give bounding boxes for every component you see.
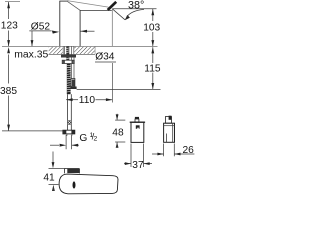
26 dimension xyxy=(163,144,165,157)
svg-text:2: 2 xyxy=(94,135,98,142)
svg-text:Ø34: Ø34 xyxy=(95,51,115,62)
svg-text:41: 41 xyxy=(43,173,55,184)
41 dimension xyxy=(52,152,54,163)
O52 leader: underline, right arrow, drop line with arrow xyxy=(29,30,51,32)
svg-text:123: 123 xyxy=(1,21,18,32)
deck hole edges xyxy=(63,46,74,54)
O52 right-side arrow at body edge xyxy=(81,30,95,32)
spout underside xyxy=(80,9,112,11)
115 dimension xyxy=(152,47,154,63)
counter/deck top line xyxy=(2,45,158,47)
control box xyxy=(131,122,144,142)
svg-text:max.35: max.35 xyxy=(14,50,48,61)
connector on sensor cable xyxy=(71,79,75,87)
washer xyxy=(61,55,76,58)
sensor tab xyxy=(64,168,79,173)
left dim line 123/385 with top tick xyxy=(5,1,20,3)
svg-text:48: 48 xyxy=(112,127,124,138)
faucet body xyxy=(59,1,61,46)
power supply cylinder xyxy=(164,123,175,142)
spout top back edge xyxy=(67,1,108,8)
115 bottom ref line xyxy=(77,88,161,90)
svg-text:38°: 38° xyxy=(128,0,144,12)
braided hose xyxy=(67,64,71,95)
oval detail xyxy=(73,181,76,188)
shank tube lines xyxy=(64,46,74,78)
110 dimension xyxy=(66,99,78,101)
svg-text:385: 385 xyxy=(0,86,17,97)
G1/2 dimension xyxy=(65,135,67,149)
svg-text:103: 103 xyxy=(143,22,160,33)
O34 underline xyxy=(95,61,116,63)
svg-text:37: 37 xyxy=(132,160,144,171)
threaded rod dark xyxy=(66,46,69,60)
svg-text:26: 26 xyxy=(183,145,195,156)
svg-text:110: 110 xyxy=(79,95,96,106)
smooth supply pipe xyxy=(67,94,69,131)
103 dimension xyxy=(152,9,154,21)
mounting nut xyxy=(62,60,74,63)
svg-text:Ø52: Ø52 xyxy=(31,21,51,32)
deck hatch xyxy=(49,47,63,54)
38 deg angle dimension xyxy=(112,8,156,10)
deck bottom line xyxy=(49,53,96,55)
48 dimension xyxy=(116,114,118,120)
spout end face (thick dark bar) xyxy=(108,2,117,10)
stub below flange xyxy=(66,134,68,136)
deck right edge xyxy=(94,46,96,54)
37 dimension xyxy=(130,144,132,168)
svg-text:G: G xyxy=(79,133,87,144)
bottom ref line at supply connection level xyxy=(2,130,63,132)
svg-text:115: 115 xyxy=(144,64,161,75)
G1/2 flange (hex nut) xyxy=(63,130,75,134)
vertical ext line from spout down xyxy=(111,9,113,47)
